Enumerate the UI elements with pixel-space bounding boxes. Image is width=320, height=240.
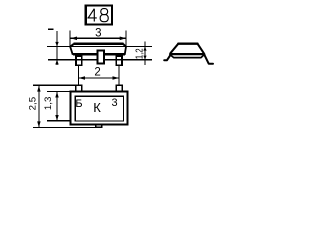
svg-text:Б: Б	[75, 98, 82, 110]
svg-text:2,5: 2,5	[28, 97, 39, 111]
svg-text:2: 2	[94, 67, 100, 79]
svg-text:К: К	[93, 100, 101, 115]
svg-text:1,2: 1,2	[134, 48, 145, 59]
svg-text:3: 3	[111, 97, 117, 109]
svg-text:3: 3	[95, 28, 101, 40]
svg-text:1,3: 1,3	[43, 97, 54, 111]
